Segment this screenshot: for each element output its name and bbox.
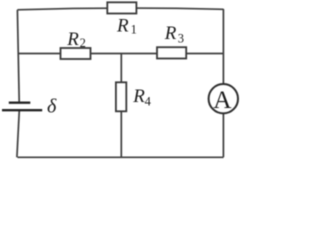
svg-text:1: 1 <box>131 23 137 37</box>
label R4 <box>132 86 151 109</box>
svg-text:4: 4 <box>145 95 152 109</box>
wire right border (top-right corner through ammeter to bottom-right corner) <box>222 9 224 157</box>
svg-text:δ: δ <box>47 95 57 117</box>
resistor R3 <box>157 47 186 58</box>
svg-text:R: R <box>132 86 145 107</box>
battery cell: short plate (negative) <box>9 101 31 103</box>
svg-text:3: 3 <box>178 32 184 46</box>
wire middle vertical branch (R4 branch) <box>120 54 122 158</box>
label R1 <box>116 16 137 37</box>
wire top (node between battery + and R1) <box>17 8 223 10</box>
battery cell: long plate (positive) <box>2 109 42 111</box>
wire middle horizontal (R2-R3 branch) <box>18 53 224 55</box>
svg-text:A: A <box>213 86 232 114</box>
wire left border bottom (battery - to bottom-left corner) <box>17 110 19 157</box>
resistor R1 <box>107 2 136 13</box>
resistor R2 <box>61 48 91 59</box>
wire left border top (battery + to top-left corner) <box>17 10 19 102</box>
svg-text:2: 2 <box>80 36 86 50</box>
resistor R4 <box>116 82 126 111</box>
label R2 <box>66 29 86 50</box>
svg-text:R: R <box>66 29 79 50</box>
wire bottom (return to battery -) <box>18 156 224 158</box>
label R3 <box>164 23 184 46</box>
ammeter A <box>209 84 238 114</box>
svg-text:R: R <box>164 23 177 44</box>
svg-text:R: R <box>116 16 129 37</box>
